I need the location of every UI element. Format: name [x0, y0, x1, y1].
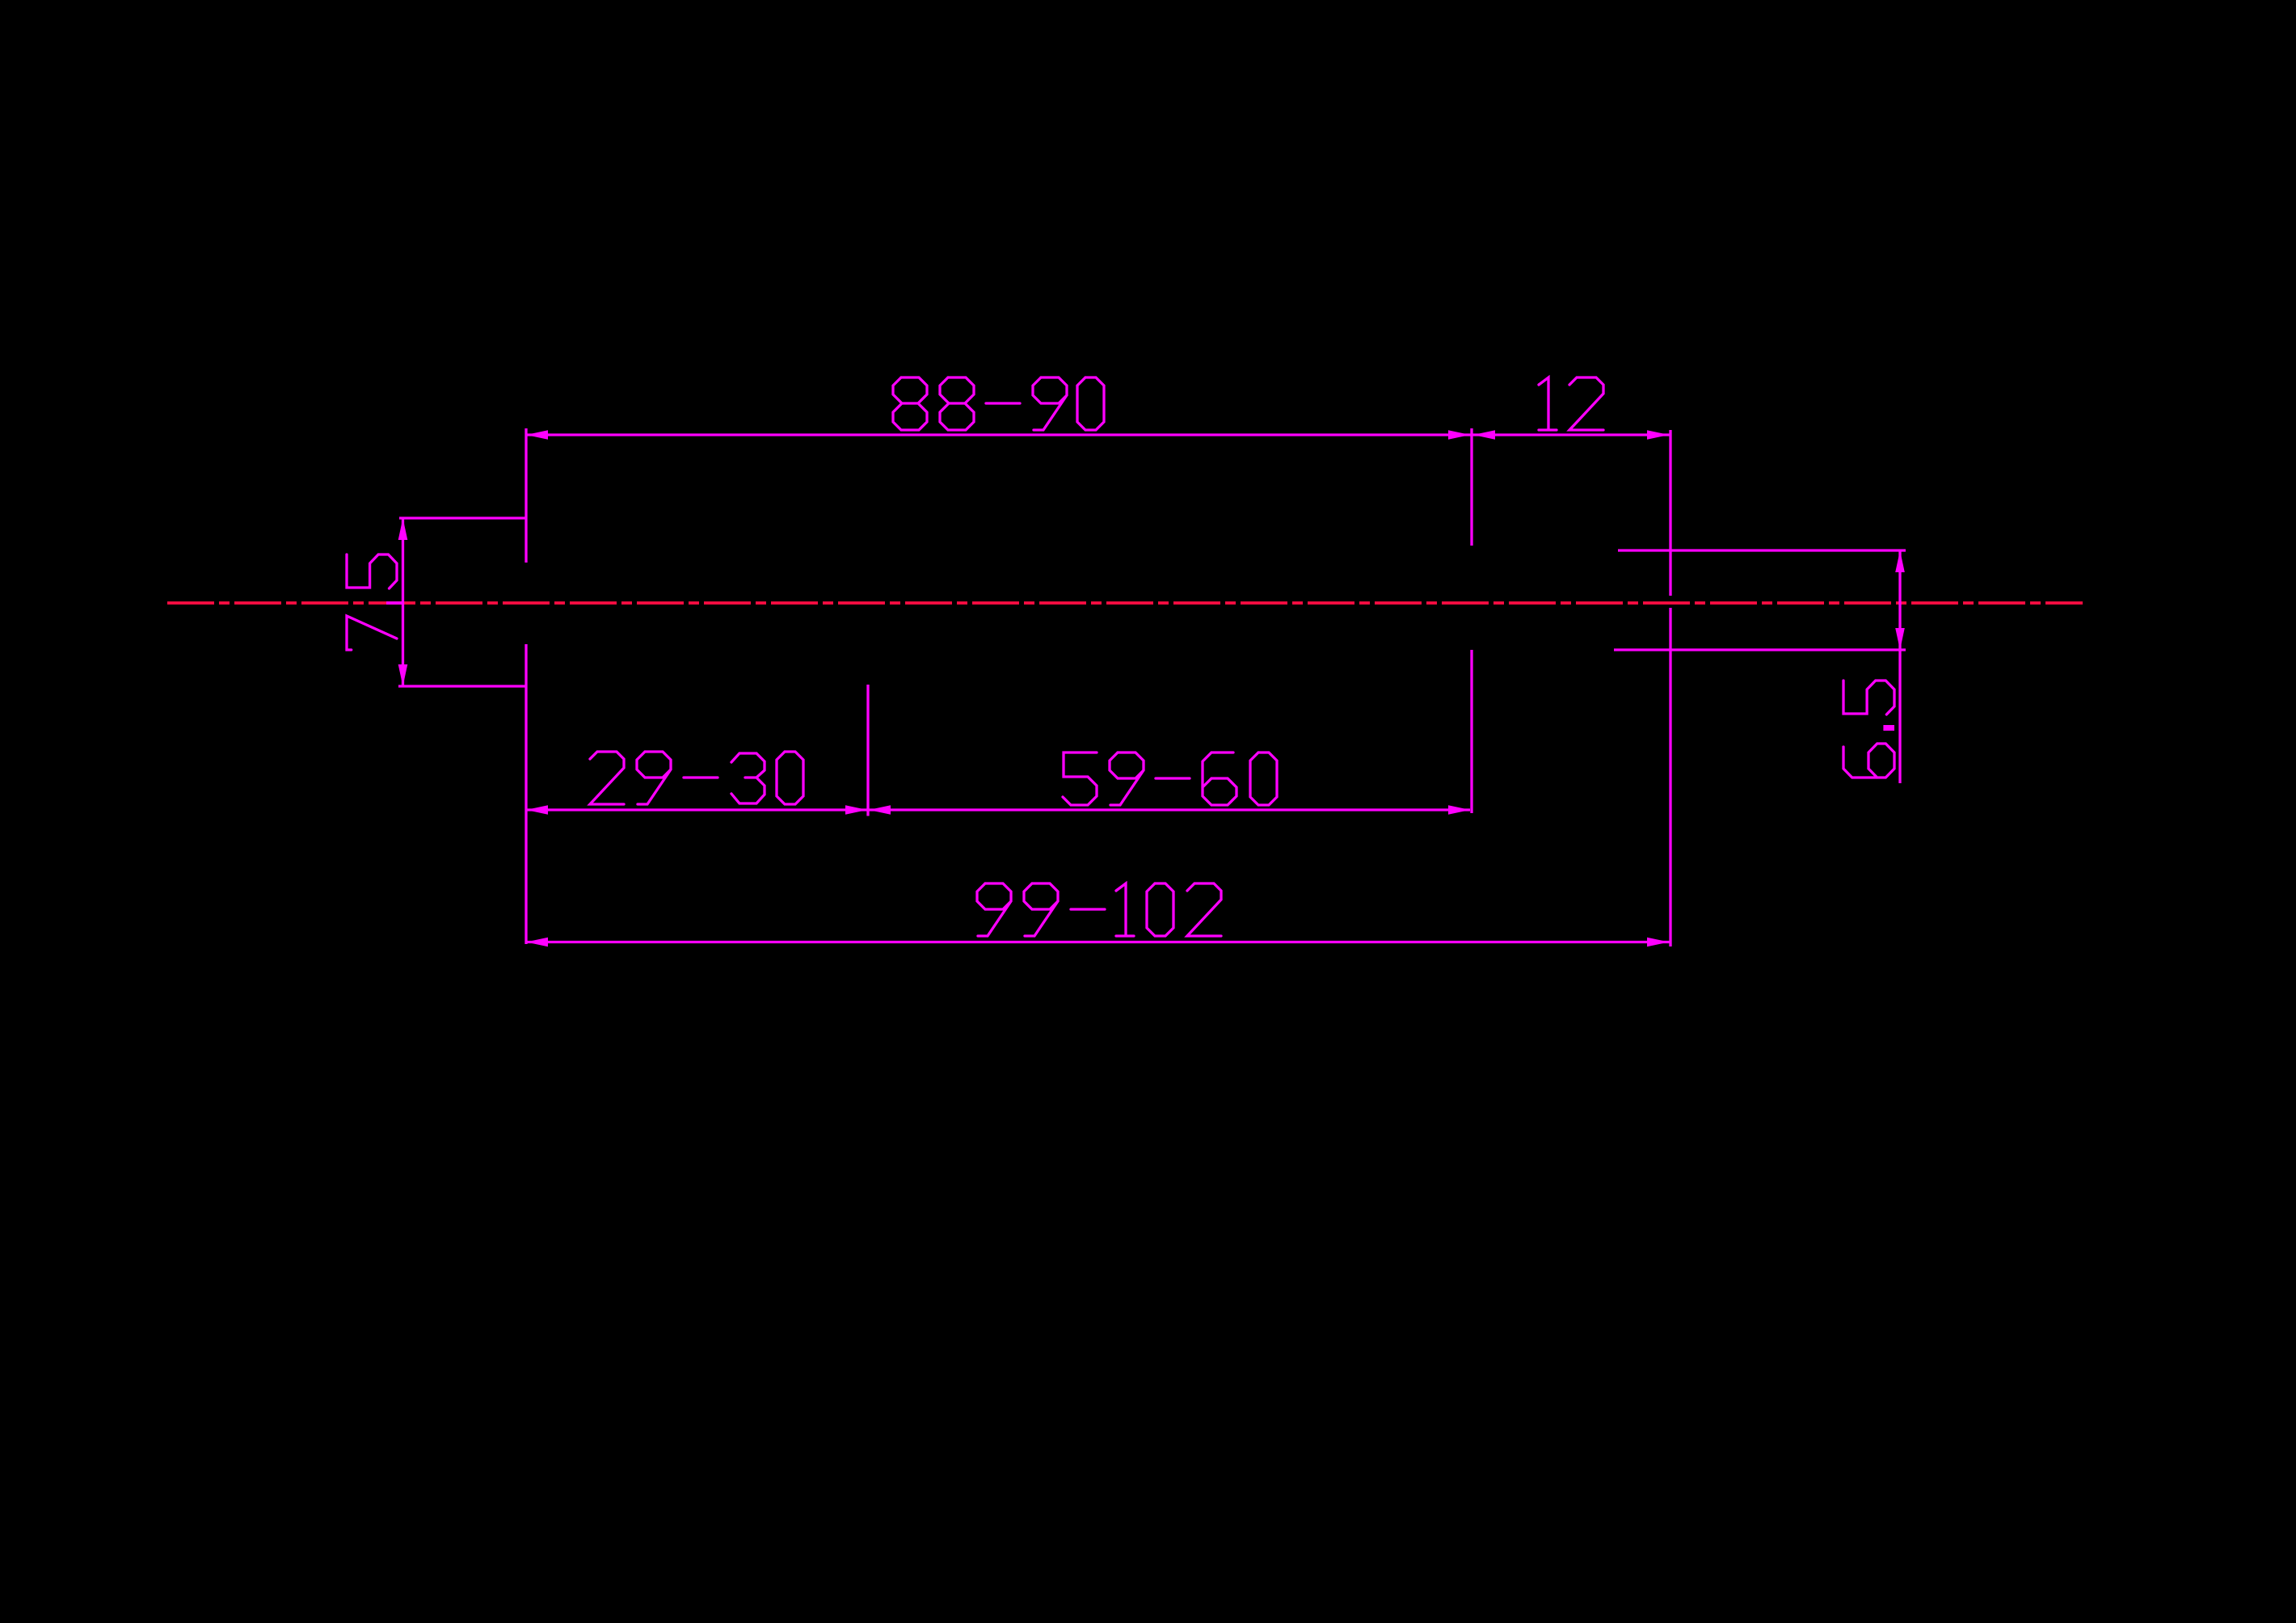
extension line left (x=651) lower — [524, 644, 527, 944]
dimension line 6.5 (vertical) — [1898, 550, 1901, 783]
dimension text 99-102 — [977, 883, 1011, 936]
left step bottom edge — [398, 685, 526, 687]
arrow 75 bottom — [398, 664, 408, 686]
arrow 75 top — [398, 518, 408, 540]
arrow 88-90 left — [526, 430, 548, 440]
dimension line 29-30 — [526, 808, 868, 811]
left step top edge — [399, 516, 526, 519]
dimension line 88-90 / 12 (top) — [526, 433, 1670, 436]
centerline (red dash-dot axis) — [167, 601, 2083, 605]
centerline magenta overlap dash — [386, 601, 403, 605]
dimension line 75 (vertical) — [402, 518, 404, 686]
dimension text 29-30 — [590, 752, 624, 804]
extension line mid (x=1821) upper — [1470, 428, 1472, 546]
arrow 99-102 left — [526, 938, 548, 947]
dimension text 6.5 (rotated) — [1843, 744, 1894, 778]
extension tick (x=1074) — [866, 685, 869, 816]
dimension text 88-90 — [893, 377, 927, 430]
extension line right (x=2067) lower — [1669, 608, 1671, 946]
arrow 6.5 top — [1895, 550, 1905, 572]
arrow 12 left — [1473, 430, 1495, 440]
arrow 29-30 right — [845, 805, 867, 815]
dimension line 99-102 (bottom) — [526, 941, 1670, 943]
arrow 88-90 right — [1448, 430, 1470, 440]
dimension text 12 — [1539, 377, 1557, 430]
extension line left (x=651) upper — [524, 428, 527, 563]
right shaft bottom edge — [1614, 648, 1906, 651]
dimension line 59-60 — [868, 808, 1470, 811]
extension line mid (x=1821) lower — [1470, 650, 1472, 813]
arrow 99-102 right — [1647, 938, 1669, 947]
dimension text 75 (rotated) — [347, 616, 397, 650]
arrow 12 right — [1647, 430, 1669, 440]
arrow 6.5 bottom — [1895, 628, 1905, 650]
dimension text 59-60 — [1063, 752, 1097, 805]
arrow 29-30 left — [526, 805, 548, 815]
arrow 59-60 left — [869, 805, 891, 815]
extension line right (x=2067) upper — [1669, 430, 1671, 596]
arrow 59-60 right — [1448, 805, 1470, 815]
right shaft top edge — [1618, 549, 1906, 551]
